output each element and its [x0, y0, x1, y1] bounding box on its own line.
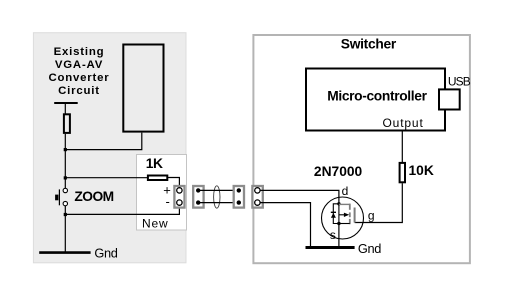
connector block D	[252, 186, 262, 208]
wire minus pin to node3	[65, 205, 179, 214]
ground (left)	[39, 251, 90, 254]
node3 junction	[64, 213, 67, 216]
wire connector D to ground	[260, 203, 310, 248]
left loop with body diode	[333, 204, 339, 224]
cable wires B to C	[198, 189, 239, 191]
svg-text:VGA-AV: VGA-AV	[55, 59, 103, 71]
svg-text:1K: 1K	[146, 156, 163, 171]
wire node3 to ground	[64, 214, 66, 252]
body arrow	[339, 214, 344, 216]
wire 1K to plus pin	[168, 178, 179, 189]
wire R1 to node1	[64, 134, 66, 150]
connector block B	[193, 186, 203, 208]
wire 10K to gate	[355, 183, 403, 222]
svg-text:Gnd: Gnd	[94, 245, 117, 260]
usb connector	[439, 89, 460, 109]
cable ellipse	[214, 186, 220, 208]
wire node2 to 1K resistor	[65, 177, 147, 179]
wire node2 to button	[64, 178, 66, 189]
svg-text:Converter: Converter	[48, 72, 109, 84]
gate bar	[354, 208, 356, 223]
svg-text:-: -	[166, 194, 170, 209]
connector block C	[234, 186, 244, 208]
svg-text:Circuit: Circuit	[58, 85, 100, 97]
wire button to node3	[64, 206, 66, 215]
gray channel structure	[339, 203, 350, 205]
svg-text:Gnd: Gnd	[358, 241, 381, 256]
resistor 1K body	[148, 176, 167, 181]
new box	[137, 155, 187, 231]
transistor Q1 2N7000	[322, 197, 364, 239]
ground (right)	[306, 246, 355, 249]
micro-controller box U1	[306, 69, 445, 131]
tall rectangle (VGA-AV board block)	[123, 45, 163, 132]
svg-text:Micro-controller: Micro-controller	[327, 89, 427, 104]
wire output to 10K	[401, 132, 403, 163]
node1 junction	[64, 148, 67, 151]
wire connector D to drain	[260, 190, 339, 203]
svg-text:Existing: Existing	[54, 46, 105, 58]
svg-text:10K: 10K	[409, 163, 434, 178]
svg-text:g: g	[368, 208, 375, 222]
wire node1 to node2	[64, 150, 66, 178]
svg-text:2N7000: 2N7000	[314, 164, 363, 179]
label: Existing VGA-AV Converter Circuit	[48, 46, 109, 97]
svg-text:s: s	[330, 228, 336, 242]
svg-text:New: New	[142, 216, 168, 230]
svg-text:Output: Output	[383, 116, 424, 130]
resistor R1	[64, 114, 70, 133]
svg-text:Switcher: Switcher	[341, 36, 397, 51]
dots	[337, 202, 340, 205]
supply rail bar	[54, 102, 77, 104]
resistor 10K	[400, 163, 405, 182]
svg-text:ZOOM: ZOOM	[74, 189, 113, 204]
connector block A	[174, 186, 184, 208]
wire source to ground	[338, 224, 340, 248]
switcher enclosure	[253, 35, 470, 263]
pushbutton ZOOM	[55, 188, 67, 206]
node2 junction	[64, 176, 67, 179]
svg-text:USB: USB	[448, 75, 471, 89]
existing converter panel	[33, 33, 186, 263]
central vertical	[338, 204, 340, 224]
wire from tall rect to node1	[65, 133, 142, 150]
svg-text:d: d	[342, 184, 349, 198]
wire rail to R1	[64, 103, 66, 114]
